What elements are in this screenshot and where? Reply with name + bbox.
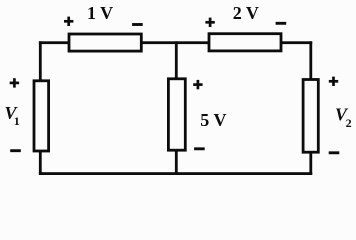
polarity -: bottom of 5 V element [194,147,205,150]
label: V1 (italic V with subscript 1) [5,103,20,128]
polarity -: right of 1 V element [132,23,143,26]
svg-text:5 V: 5 V [200,110,226,130]
polarity +: top of 5 V element [193,80,202,89]
svg-text:1: 1 [14,114,20,128]
svg-text:2: 2 [346,116,352,130]
polarity +: left of 2 V element [205,18,214,27]
element box: V1 (left vertical element) [34,81,49,151]
element box: V2 (right vertical element) [303,80,318,153]
wire: top horizontal bus from node A to node D [39,41,312,44]
source element box: 1 V (top-left horizontal element) [69,34,141,51]
polarity -: right of 2 V element [276,22,287,25]
wire: right vertical branch through V2 [309,41,312,175]
wire: bottom horizontal bus (common return) [39,172,312,175]
polarity -: bottom of V2 element [329,151,340,154]
polarity +: top of V2 element [329,77,338,86]
svg-text:1 V: 1 V [87,3,113,23]
source element box: 2 V (top-right horizontal element) [209,34,281,51]
polarity +: left of 1 V element [64,17,73,26]
wire: middle vertical branch through 5 V source [175,41,178,175]
polarity -: bottom of V1 element [10,149,21,152]
label: V2 (italic V with subscript 2) [335,104,352,130]
svg-text:2 V: 2 V [233,3,259,23]
polarity +: top of V1 element [10,78,19,87]
source element box: 5 V (middle vertical element) [168,79,185,150]
wire: left vertical branch through V1 [39,41,42,175]
